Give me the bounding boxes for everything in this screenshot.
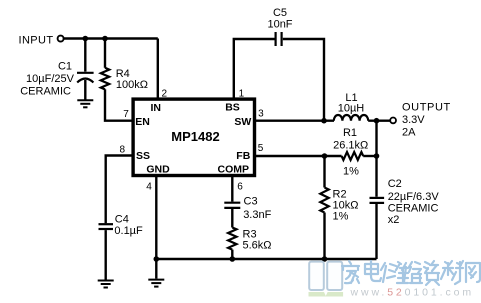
svg-text:SS: SS (136, 150, 150, 162)
svg-text:IN: IN (150, 102, 161, 114)
ground C1 (77, 100, 93, 107)
svg-text:OUTPUT: OUTPUT (402, 102, 451, 114)
wire rail ground stub (155, 259, 157, 279)
op IC U1 MP1482 (133, 99, 254, 175)
svg-text:GND: GND (146, 164, 170, 176)
wire COMP pin6 down (231, 177, 233, 202)
svg-text:5.6kΩ: 5.6kΩ (243, 239, 272, 251)
svg-text:7: 7 (123, 109, 129, 120)
inductor L1 (334, 115, 368, 121)
svg-text:SW: SW (234, 116, 251, 128)
svg-text:C5: C5 (273, 7, 287, 19)
wire L1 to output (368, 119, 390, 121)
resistor R4 (101, 68, 109, 90)
svg-text:EN: EN (135, 116, 150, 128)
capacitor C3 (224, 203, 240, 208)
wire R3 bottom lead (231, 250, 233, 259)
node output junction (374, 118, 380, 124)
svg-text:10µF/25V: 10µF/25V (26, 73, 75, 85)
wire input to pin 2 (157, 39, 159, 100)
node C1 tap (83, 36, 89, 42)
svg-text:CERAMIC: CERAMIC (388, 202, 439, 214)
capacitor C5 (276, 32, 282, 46)
svg-text:10µH: 10µH (338, 103, 365, 115)
svg-text:0.1µF: 0.1µF (114, 225, 143, 237)
svg-text:CERAMIC: CERAMIC (20, 85, 71, 97)
svg-text:3.3nF: 3.3nF (243, 209, 271, 221)
svg-text:www.520101.com: www.520101.com (350, 287, 475, 299)
svg-text:x2: x2 (388, 214, 400, 226)
capacitor C2 (370, 198, 385, 203)
svg-text:3: 3 (258, 109, 264, 120)
wire SS to C4 (106, 156, 133, 224)
resistor R2 (320, 188, 328, 213)
svg-text:10nF: 10nF (267, 19, 292, 31)
output terminal (390, 118, 396, 124)
svg-text:6: 6 (237, 182, 243, 193)
svg-text:100kΩ: 100kΩ (116, 79, 148, 91)
svg-text:INPUT: INPUT (19, 34, 54, 46)
wire C5 right to SW node (283, 39, 324, 121)
svg-text:1: 1 (239, 89, 245, 100)
svg-text:C2: C2 (388, 178, 402, 190)
wire FB to R2 node (256, 155, 342, 157)
node rail/pin4 (154, 256, 160, 262)
svg-text:C1: C1 (58, 61, 72, 73)
svg-text:C3: C3 (244, 196, 258, 208)
wire C2 bottom lead (375, 204, 377, 259)
input terminal (58, 36, 64, 42)
capacitor C1 (77, 73, 94, 83)
svg-text:2A: 2A (402, 127, 416, 139)
wire R2 bottom lead (323, 213, 325, 260)
svg-text:1%: 1% (343, 165, 359, 177)
svg-text:COMP: COMP (218, 164, 250, 176)
svg-text:MP1482: MP1482 (171, 129, 219, 144)
wire R4 bottom to EN (105, 89, 133, 121)
ground rail (148, 280, 164, 287)
node FB junction (322, 153, 328, 159)
svg-text:R4: R4 (116, 68, 130, 80)
wire C1 bottom lead (84, 80, 86, 100)
node R1/C2 junction (374, 153, 380, 159)
wire R4 top lead (104, 39, 106, 68)
wire ground rail (156, 258, 376, 260)
wire C1 top lead (84, 39, 86, 72)
svg-text:R1: R1 (343, 127, 357, 139)
wire GND pin4 down (155, 177, 157, 259)
wire BS pin1 up (234, 39, 275, 99)
node R3/rail (230, 256, 236, 262)
svg-text:1%: 1% (333, 211, 349, 223)
ground C4 (98, 281, 114, 288)
node R2/rail (322, 256, 328, 262)
node R4 tap (102, 36, 108, 42)
svg-text:5: 5 (258, 143, 264, 154)
wire SW to L1 (256, 119, 334, 121)
resistor R3 (228, 228, 236, 250)
svg-text:FB: FB (236, 150, 250, 162)
wire output node down to C2 (375, 121, 377, 197)
wire input horizontal (64, 37, 158, 39)
svg-text:22µF/6.3V: 22µF/6.3V (388, 191, 440, 203)
wire R1 right lead (363, 155, 376, 157)
resistor R1 (342, 152, 364, 160)
wire C3 to R3 (231, 209, 233, 228)
svg-text:8: 8 (120, 145, 126, 156)
svg-text:R2: R2 (333, 188, 347, 200)
watermark book icon (308, 262, 343, 297)
svg-text:4: 4 (146, 182, 152, 193)
svg-text:2: 2 (162, 89, 168, 100)
svg-text:BS: BS (225, 102, 240, 114)
node C5/SW junction (321, 118, 327, 124)
watermark CJK text (342, 261, 480, 285)
wire C4 bottom lead (104, 230, 106, 279)
capacitor C4 (99, 224, 114, 229)
svg-text:C4: C4 (115, 213, 129, 225)
svg-text:3.3V: 3.3V (402, 114, 425, 126)
svg-text:26.1kΩ: 26.1kΩ (333, 139, 368, 151)
wire R2 top lead (323, 156, 325, 188)
